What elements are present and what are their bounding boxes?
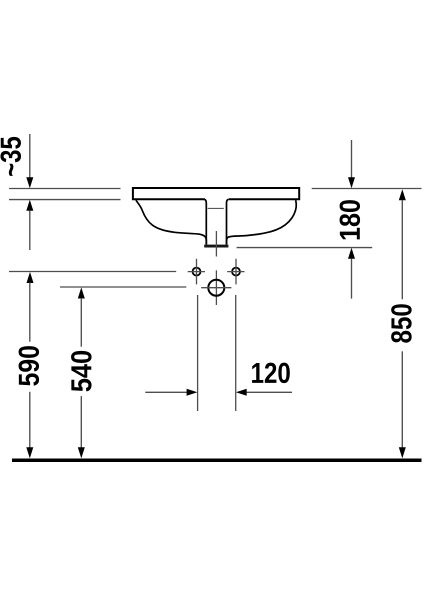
dimension 540 lower line: [80, 396, 82, 448]
extension line drain bottom right: [237, 247, 373, 249]
right fixing hole: [232, 268, 240, 276]
dimension 590 lower arrowhead: [26, 447, 33, 458]
level line 590: [9, 271, 176, 273]
countertop top line: [9, 188, 121, 190]
drain channel left wall: [204, 199, 206, 244]
dimension 850 lower arrowhead: [399, 447, 406, 458]
dimension text 850: [391, 304, 412, 343]
drain channel right wall: [227, 199, 229, 244]
dimension 850 upper arrowhead: [399, 189, 406, 200]
dimension 590 upper arrowhead: [27, 272, 34, 283]
right fixing hole crosshair vertical: [235, 259, 237, 285]
dimension 590 lower line: [29, 392, 31, 448]
dimension text 180: [340, 200, 361, 239]
dimension text 120: [252, 363, 290, 384]
dimension 590 upper line: [29, 283, 31, 342]
dimension 180 upper tail: [351, 140, 353, 178]
dimension 540 lower arrowhead: [78, 447, 85, 458]
overflow level line: [208, 207, 224, 209]
extension line rim top right: [312, 188, 422, 190]
dimension 850 upper line: [401, 200, 403, 299]
dimension ~35 lower tail: [29, 211, 31, 250]
dimension 120 right arrowhead: [236, 389, 247, 396]
dimension 120 left arrowhead: [187, 389, 198, 396]
left fixing hole crosshair horizontal: [188, 271, 205, 273]
dimension 120 left line: [145, 391, 187, 393]
center axis line lower segment: [215, 270, 217, 305]
right fixing hole crosshair horizontal: [227, 271, 244, 273]
drain outlet bar: [204, 245, 228, 248]
dimension 180 lower arrowhead: [348, 248, 355, 259]
extension line right hole vertical: [235, 295, 237, 411]
dimension 540 upper arrowhead: [78, 287, 85, 298]
dimension 180 lower tail: [351, 259, 353, 299]
drain hole circle: [208, 280, 224, 296]
dimension 540 upper line: [80, 298, 82, 347]
left fixing hole: [193, 268, 201, 276]
washbasin bowl right profile: [227, 200, 297, 244]
drain hole crosshair horizontal: [201, 287, 231, 289]
dimension 180 upper arrowhead: [348, 177, 355, 188]
dimension 850 lower line: [401, 351, 403, 448]
dimension text 540: [71, 351, 92, 392]
dimension ~35 upper arrowhead: [26, 177, 33, 188]
center axis line upper segment: [215, 231, 217, 257]
countertop bottom line: [9, 199, 121, 201]
level line 540: [60, 286, 186, 288]
washbasin rim: [133, 188, 299, 199]
washbasin bowl left profile: [136, 200, 206, 244]
extension line left hole vertical: [197, 295, 199, 411]
dimension text ~35: [0, 137, 21, 176]
left fixing hole crosshair vertical: [196, 259, 198, 285]
dimension text 590: [19, 346, 40, 386]
dimension 120 right line: [247, 391, 293, 393]
dimension ~35 upper tail: [29, 134, 31, 178]
floor line: [12, 459, 422, 463]
dimension ~35 lower arrowhead: [26, 200, 33, 211]
